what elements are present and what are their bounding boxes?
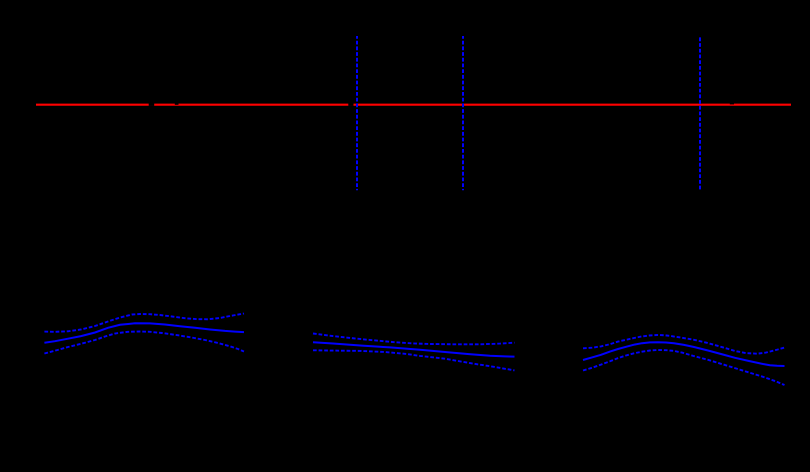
panel 2 solid fit — [313, 342, 515, 356]
panel 2 lower CI — [313, 350, 515, 370]
panel 3 upper CI — [583, 335, 785, 354]
panel 1 solid fit — [44, 323, 244, 343]
panel 3 lower CI — [583, 350, 785, 385]
panel 1 upper CI — [44, 314, 244, 332]
blue dashed vertical line 1 — [356, 36, 358, 190]
black data marks crossing the red line — [149, 103, 734, 106]
panel 2 upper CI — [313, 334, 515, 345]
panel 3 solid fit — [583, 342, 785, 366]
panel 1 lower CI — [44, 332, 244, 354]
blue dashed vertical line 3 — [699, 36, 701, 190]
red zero line (top panel) — [36, 104, 791, 106]
blue dashed vertical line 2 — [462, 36, 464, 190]
